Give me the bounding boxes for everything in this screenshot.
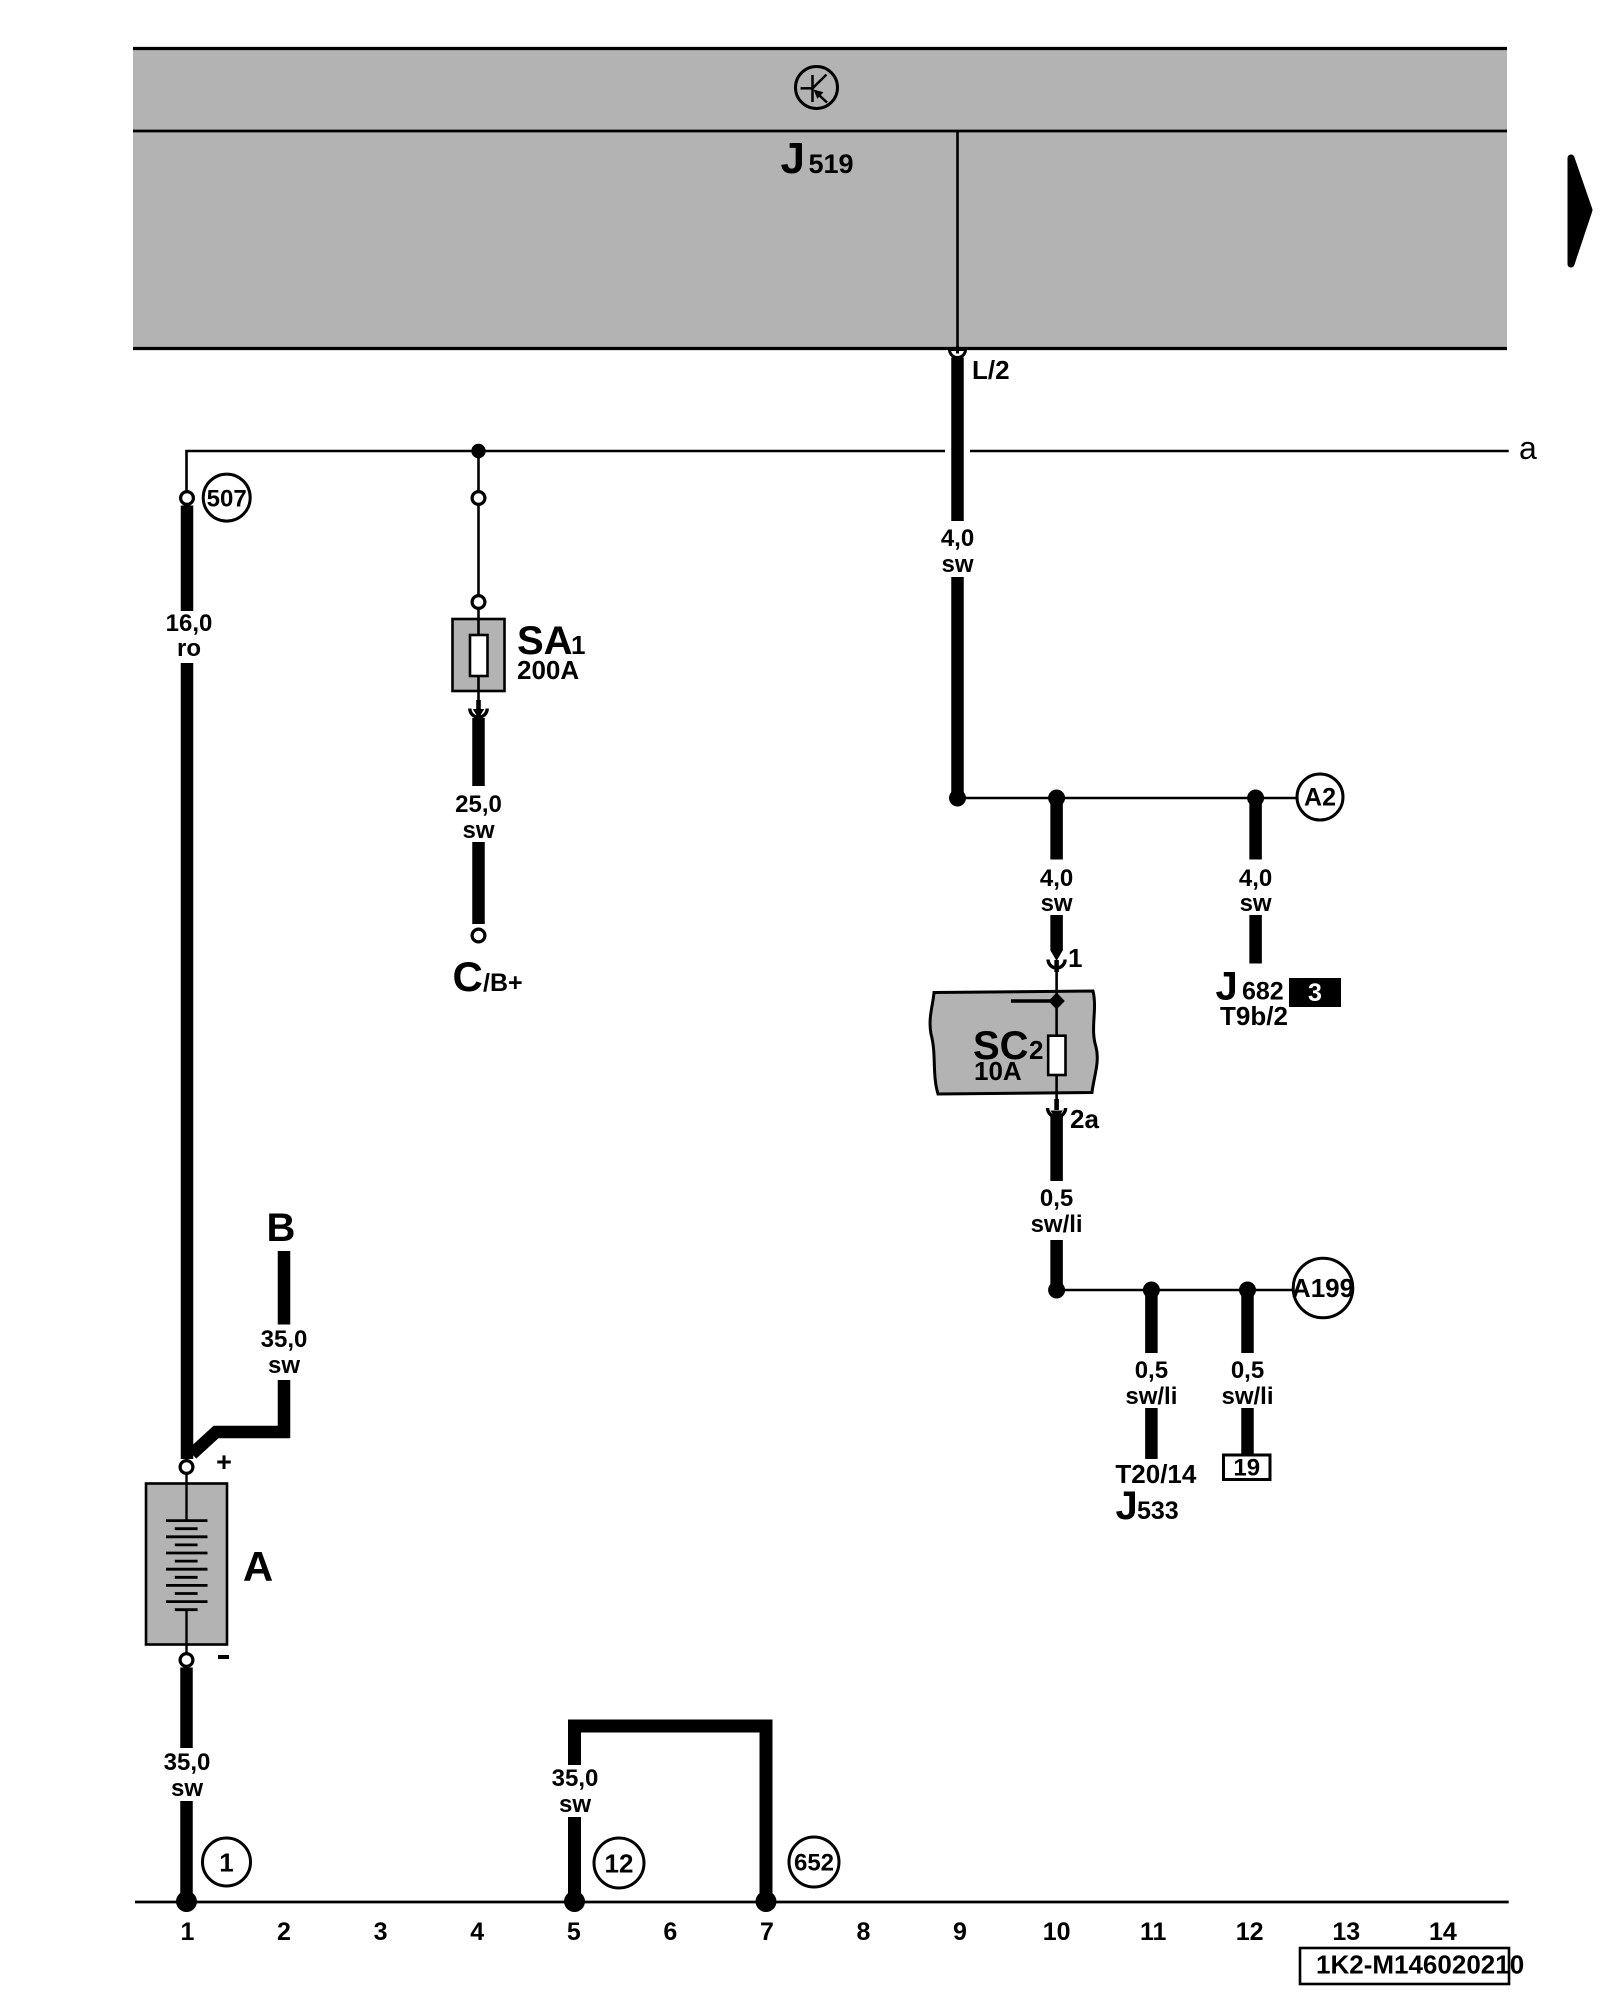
- svg-text:/B+: /B+: [483, 969, 523, 997]
- svg-text:sw/li: sw/li: [1221, 1383, 1273, 1410]
- svg-text:A199: A199: [1292, 1273, 1354, 1303]
- wire 35,0 sw battery negative to ground 1 (col 1): [164, 1668, 211, 1898]
- svg-text:B: B: [267, 1206, 296, 1250]
- junction dot col 12 on A2 line: [1247, 790, 1264, 807]
- label SA1 200A: [517, 619, 585, 685]
- svg-text:sw/li: sw/li: [1031, 1211, 1083, 1238]
- terminal box 19: [1224, 1455, 1271, 1482]
- svg-text:35,0: 35,0: [552, 1765, 599, 1792]
- wire 25,0 sw from SA1 to C/B+: [455, 718, 502, 924]
- svg-text:4,0: 4,0: [1040, 865, 1073, 892]
- label A: [243, 1543, 273, 1590]
- svg-text:11: 11: [1140, 1918, 1167, 1946]
- junction dot col 11 on A199 line: [1143, 1282, 1160, 1299]
- svg-text:2: 2: [1029, 1035, 1043, 1065]
- svg-text:35,0: 35,0: [164, 1749, 211, 1776]
- ground circle label 1: [203, 1838, 251, 1886]
- wire B 35,0 sw (col 2): [192, 1251, 307, 1454]
- svg-text:sw: sw: [1041, 890, 1073, 917]
- socket pin 1 of SC2: [1048, 960, 1065, 973]
- label J682 T9b/2: [1216, 965, 1288, 1032]
- connector circle A199: [1292, 1258, 1354, 1318]
- svg-text:19: 19: [1233, 1455, 1260, 1482]
- svg-text:1: 1: [1068, 943, 1082, 973]
- pin label 1: [1068, 943, 1082, 973]
- svg-text:sw: sw: [171, 1775, 203, 1802]
- svg-text:4,0: 4,0: [941, 525, 974, 552]
- svg-text:35,0: 35,0: [261, 1326, 308, 1353]
- ground junction dot col 1: [176, 1891, 197, 1912]
- svg-text:a: a: [1519, 430, 1537, 466]
- svg-text:0,5: 0,5: [1135, 1357, 1168, 1384]
- connector circle A2: [1297, 774, 1343, 820]
- svg-text:sw/li: sw/li: [1125, 1383, 1177, 1410]
- svg-text:8: 8: [857, 1918, 871, 1946]
- junction dot col 9 on A2 line: [949, 790, 966, 807]
- svg-text:J: J: [781, 134, 805, 183]
- svg-text:1K2-M146020210: 1K2-M146020210: [1316, 1950, 1524, 1980]
- svg-text:3: 3: [1308, 979, 1322, 1007]
- plug connector below SA1 (arrow into socket): [470, 700, 487, 719]
- bolted terminal circle at SA1 input: [472, 596, 485, 609]
- fuse SA1 body: [453, 610, 505, 701]
- wire 16,0 ro (col 1, battery positive feed): [166, 506, 213, 1460]
- svg-text:C: C: [453, 953, 483, 1000]
- pin label T20/14: [1115, 1459, 1196, 1489]
- ground circle label 652: [789, 1837, 839, 1887]
- pin label 2a: [1070, 1104, 1099, 1134]
- K symbol (interior connection symbol) in J519: [796, 67, 838, 109]
- part number box 1K2-M146020210: [1300, 1948, 1524, 1984]
- svg-text:A2: A2: [1304, 784, 1336, 812]
- svg-text:ro: ro: [177, 635, 201, 662]
- junction dot col 10 on A2 line: [1048, 790, 1065, 807]
- svg-text:sw: sw: [941, 551, 973, 578]
- svg-text:13: 13: [1332, 1918, 1360, 1946]
- control unit J519 body: [133, 47, 1507, 349]
- label J533: [1116, 1484, 1179, 1528]
- label SC2 10A: [973, 1024, 1043, 1086]
- svg-text:200A: 200A: [517, 655, 579, 685]
- lead between terminals: [477, 506, 480, 595]
- ground strap 35,0 sw between ground 12 and 652 (cols 5-7): [552, 1726, 766, 1897]
- svg-text:9: 9: [953, 1918, 967, 1946]
- circle label 507: [203, 474, 250, 521]
- svg-text:25,0: 25,0: [455, 791, 502, 818]
- plug pin 2a of SC2 (arrow out): [1048, 1099, 1066, 1121]
- svg-text:T9b/2: T9b/2: [1220, 1001, 1288, 1031]
- svg-text:A: A: [243, 1543, 273, 1590]
- svg-text:sw: sw: [462, 817, 494, 844]
- svg-text:12: 12: [1236, 1918, 1264, 1946]
- svg-text:519: 519: [809, 149, 854, 179]
- wire 4,0 sw from A2 line to fuse SC2 pin 1: [1040, 798, 1073, 961]
- svg-text:L/2: L/2: [972, 355, 1010, 385]
- svg-text:533: 533: [1137, 1497, 1179, 1525]
- svg-text:12: 12: [605, 1849, 634, 1879]
- wire 4,0 sw to J682: [1239, 798, 1272, 964]
- fuse panel SC2 body (torn segment): [930, 972, 1097, 1099]
- svg-text:652: 652: [794, 1850, 834, 1877]
- terminal circle C/B+: [472, 929, 485, 942]
- ground junction dot col 7: [756, 1891, 777, 1912]
- connector line A199: [1057, 1289, 1294, 1292]
- junction dot on node a (col 4): [471, 444, 485, 458]
- svg-text:+: +: [216, 1447, 232, 1477]
- svg-text:1: 1: [181, 1918, 195, 1946]
- earth track line: [135, 1901, 1509, 1904]
- node a horizontal line: [187, 451, 1509, 491]
- svg-text:sw: sw: [559, 1791, 591, 1818]
- svg-text:4: 4: [470, 1918, 484, 1946]
- internal wire of J519 to terminal L/2: [956, 131, 959, 348]
- svg-text:1: 1: [219, 1848, 233, 1878]
- svg-text:507: 507: [207, 485, 247, 512]
- ground junction dot col 5: [564, 1891, 585, 1912]
- svg-text:10: 10: [1043, 1918, 1071, 1946]
- grid numbers 1-14: [181, 1918, 1457, 1946]
- terminal L/2 socket at J519: [950, 346, 966, 358]
- lead from node a to fuse SA1: [477, 451, 480, 491]
- svg-text:sw: sw: [268, 1352, 300, 1379]
- connector line A2: [958, 797, 1297, 800]
- svg-text:4,0: 4,0: [1239, 865, 1272, 892]
- bolted terminal circle above SA1: [472, 492, 485, 505]
- svg-text:6: 6: [663, 1918, 677, 1946]
- svg-text:3: 3: [374, 1918, 388, 1946]
- ground circle label 12: [594, 1838, 644, 1888]
- battery A body: [146, 1475, 227, 1654]
- svg-text:2a: 2a: [1070, 1104, 1099, 1134]
- label J519: [781, 134, 854, 183]
- label B: [267, 1206, 296, 1250]
- label L/2: [972, 355, 1010, 385]
- svg-text:sw: sw: [1240, 890, 1272, 917]
- label C/B+: [453, 953, 523, 1000]
- minus sign: [218, 1655, 229, 1659]
- svg-text:10A: 10A: [974, 1056, 1022, 1086]
- plus sign: [216, 1447, 232, 1477]
- terminal circle 507 (col 1): [181, 492, 194, 505]
- junction dot col 10 on A199 line: [1048, 1282, 1065, 1299]
- wire 0,5 sw/li to terminal 19: [1221, 1290, 1273, 1455]
- svg-text:0,5: 0,5: [1231, 1357, 1264, 1384]
- svg-text:2: 2: [277, 1918, 291, 1946]
- label a: [1519, 430, 1537, 466]
- wire 4,0 sw from L/2 down to node (col 9): [941, 358, 974, 797]
- svg-text:J: J: [1116, 1484, 1138, 1528]
- reference tag 3 (black box): [1289, 978, 1341, 1007]
- svg-text:0,5: 0,5: [1040, 1185, 1073, 1212]
- wire 0,5 sw/li from SC2 2a to A199 line: [1031, 1116, 1083, 1288]
- junction dot col 12 on A199 line: [1239, 1282, 1256, 1299]
- wire 0,5 sw/li to J533: [1125, 1290, 1177, 1459]
- battery positive terminal circle: [180, 1461, 193, 1474]
- page-turn arrow (right margin): [1571, 158, 1589, 264]
- svg-text:5: 5: [567, 1918, 581, 1946]
- svg-text:7: 7: [760, 1918, 774, 1946]
- svg-text:14: 14: [1429, 1918, 1457, 1946]
- battery negative terminal circle: [180, 1654, 193, 1667]
- svg-text:16,0: 16,0: [166, 610, 213, 637]
